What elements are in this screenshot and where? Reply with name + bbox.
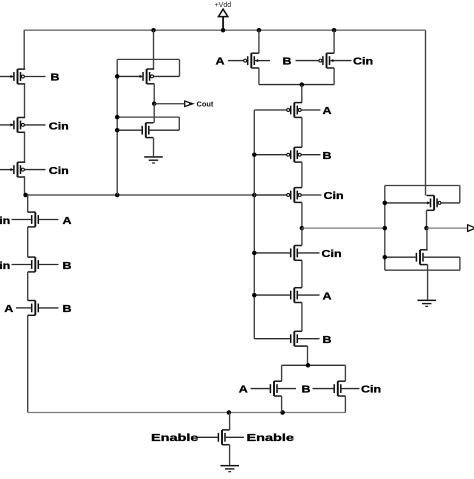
ground symbol bottom [220, 465, 239, 472]
ground symbol right [417, 300, 436, 307]
label Cin of Q4 (cut at edge) [0, 216, 10, 227]
junction box2 on rail [115, 115, 120, 120]
wire Q20 source to out node [426, 210, 428, 228]
wire gate rail x=254 [253, 110, 255, 339]
svg-text:B: B [63, 304, 72, 315]
label Cin of Q14 [324, 191, 344, 202]
wire rail to Q10 drain [258, 30, 260, 53]
transistor Q2 (left chain, gate Cin) [0, 118, 46, 133]
transistor Q14 (gate Cin) [254, 188, 321, 203]
label A of Q6 [4, 304, 13, 315]
wire Q16 source to Q17 drain [301, 303, 303, 332]
wire output to edge [427, 227, 468, 229]
wire ground node line [28, 412, 346, 414]
svg-text:B: B [302, 385, 311, 396]
junction bottom pair left source [280, 410, 285, 415]
ground symbol mid-left [144, 156, 163, 163]
junction Q21 gate [383, 255, 388, 260]
junction on rail at Vdd [221, 28, 226, 33]
junction N1 at x=254 [252, 193, 256, 198]
svg-text:Cin: Cin [0, 261, 10, 272]
wire rail to Q11 drain [333, 30, 335, 53]
wire Q12 source to Q13 drain [301, 117, 303, 147]
transistor Q3 (left chain, gate Cin) [0, 162, 46, 177]
svg-text:Cin: Cin [361, 385, 381, 396]
wire bottom pair top join [282, 364, 346, 366]
wire Q17 source down [301, 346, 307, 365]
svg-text:B: B [323, 335, 332, 346]
wire rail to Q20 drain [425, 30, 427, 195]
wire Cout node to port [154, 103, 184, 105]
junction Q15 gate on rail [252, 251, 256, 256]
transistor Q15 (gate Cin, NMOS) [254, 246, 319, 261]
wire Q15 source to Q16 drain [301, 260, 303, 287]
label Cout [197, 99, 214, 108]
svg-text:B: B [63, 261, 72, 272]
junction pair source mid [300, 82, 305, 87]
transistor Q4 (gate Cin, body A) [12, 212, 59, 227]
wire Q6 source down [27, 315, 29, 412]
svg-text:Cin: Cin [0, 216, 10, 227]
svg-text:B: B [323, 151, 332, 162]
wire to Q19 drain [344, 365, 346, 381]
transistor Q10 (gate A) [228, 53, 270, 68]
wire input rail x=117 [116, 59, 118, 195]
transistor Q16 (gate A, NMOS) [254, 288, 319, 303]
transistor Q18 (gate A) [251, 381, 297, 396]
label Cin of Q3 [49, 166, 69, 177]
svg-text:Cin: Cin [322, 249, 342, 260]
transistor Q17 (gate B, NMOS) [254, 331, 319, 346]
junction on rail x=153 [151, 28, 156, 33]
transistor Q9 (NMOS of Cout inverter) [117, 123, 179, 138]
wire rail to Q8 drain [153, 30, 155, 69]
label Cin of Q2 [49, 121, 69, 132]
junction Q13 gate on rail [252, 152, 256, 157]
junction sum output node [424, 226, 429, 231]
wire out node to Q21 drain [426, 228, 428, 250]
junction on rail x=334 [332, 28, 337, 33]
label A of Q4 [63, 216, 72, 227]
wire Q13 source to Q14 drain [301, 162, 303, 188]
svg-text:Cin: Cin [49, 166, 69, 177]
svg-text:A: A [216, 57, 225, 68]
power +Vdd symbol [215, 2, 232, 30]
port Cout arrow [185, 101, 193, 107]
transistor Q21 (NMOS sum inverter) [385, 250, 460, 265]
wire box3 top [385, 185, 460, 187]
wire Q2 source to Q3 drain [24, 132, 26, 162]
label A of Q10 [216, 57, 225, 68]
label B of Q19 [302, 385, 311, 396]
wire Q1 source to Q2 drain [24, 84, 26, 118]
junction N1 at x=117 [115, 193, 120, 198]
wire box1 right [179, 59, 181, 76]
svg-text:A: A [63, 216, 72, 227]
label B of Q6 [63, 304, 72, 315]
wire Vdd rail [24, 29, 425, 31]
svg-text:+Vdd: +Vdd [215, 2, 232, 9]
label Cin of Q11 [353, 57, 373, 68]
wire Q4 source to Q5 drain [27, 227, 29, 257]
transistor Q11 (gate B) [296, 53, 352, 68]
svg-text:A: A [323, 106, 332, 117]
svg-text:B: B [51, 73, 60, 84]
wire Q9 source to ground [153, 138, 155, 157]
wire node N1 horizontal [25, 194, 287, 196]
svg-text:Cin: Cin [353, 57, 373, 68]
label Enable right [247, 432, 295, 443]
transistor Q12 (gate A) [254, 103, 320, 118]
label B of Q13 [323, 151, 332, 162]
label A of Q18 [239, 385, 248, 396]
wire N1 to Q4 drain [27, 195, 29, 212]
transistor Q6 (gate A, body B) [16, 301, 59, 316]
junction on rail x=259 [257, 28, 262, 33]
transistor Q13 (gate B) [254, 147, 320, 162]
wire N2 to sum stage [302, 227, 385, 229]
wire Q5 source to Q6 drain [27, 272, 29, 301]
port Sum arrow (cut at edge) [468, 225, 474, 232]
junction bottom pair top [306, 363, 311, 368]
wire box3 bottom right [459, 257, 461, 270]
transistor Q20 (PMOS sum inverter) [385, 196, 460, 211]
wire Q14 source to node N2 [301, 202, 303, 228]
svg-text:A: A [4, 304, 13, 315]
junction gate Q8 on rail [115, 74, 120, 79]
wire Q21 source to ground [427, 265, 429, 300]
transistor Q1 (left chain, gate B) [0, 69, 46, 84]
svg-text:B: B [283, 57, 292, 68]
svg-text:Enable: Enable [151, 432, 199, 443]
wire pair source join [259, 68, 334, 85]
label Cin of Q15 [322, 249, 342, 260]
svg-text:A: A [323, 291, 332, 302]
junction Cout node [152, 101, 157, 106]
label A of Q12 [323, 106, 332, 117]
wire rail to Q1 drain [23, 30, 25, 69]
wire box3 bottom [385, 269, 460, 271]
wire N2 to Q15 drain [301, 228, 303, 245]
label B of Q5 [63, 261, 72, 272]
junction Q16 gate on rail [252, 293, 256, 298]
transistor Q8 (PMOS of Cout inverter) [117, 69, 179, 84]
junction Q20 gate [383, 201, 388, 206]
label Cin of Q19 [361, 385, 381, 396]
wire Cout node to Q9 drain [153, 104, 155, 123]
junction N1 left [23, 193, 28, 198]
wire Enable drain [229, 413, 231, 430]
wire to Q18 drain [281, 365, 283, 381]
label B of Q1 [51, 73, 60, 84]
svg-text:Cin: Cin [49, 121, 69, 132]
wire box1 top [117, 58, 179, 60]
wire box2 right [178, 117, 180, 130]
wire sum input rail [384, 186, 386, 271]
svg-text:Cin: Cin [324, 191, 344, 202]
wire Q3 source to node N1 [24, 177, 26, 195]
label B of Q17 [323, 335, 332, 346]
transistor Q7 Enable [198, 430, 244, 445]
junction node N2 [300, 226, 305, 231]
svg-text:Enable: Enable [247, 432, 295, 443]
wire Q18 source [281, 396, 283, 413]
wire box3 right [459, 186, 461, 203]
transistor Q19 (gate B) [313, 381, 360, 396]
wire box2 top [117, 116, 179, 118]
junction gate Q9 on rail [115, 128, 120, 133]
wire pair node down to Q12 drain [301, 85, 303, 103]
svg-text:A: A [239, 385, 248, 396]
wire Q8 source to Cout node [153, 84, 155, 104]
svg-text:Cout: Cout [197, 99, 214, 108]
label Enable left [151, 432, 199, 443]
junction sum input [383, 226, 388, 231]
wire Q7 source to ground [229, 445, 231, 465]
junction Enable drain [227, 410, 232, 415]
label B of Q11 [283, 57, 292, 68]
label Cin of Q5 (cut at edge) [0, 261, 10, 272]
label A of Q16 [323, 291, 332, 302]
wire Q19 source [344, 396, 346, 413]
transistor Q5 (gate Cin, body B) [12, 257, 59, 272]
